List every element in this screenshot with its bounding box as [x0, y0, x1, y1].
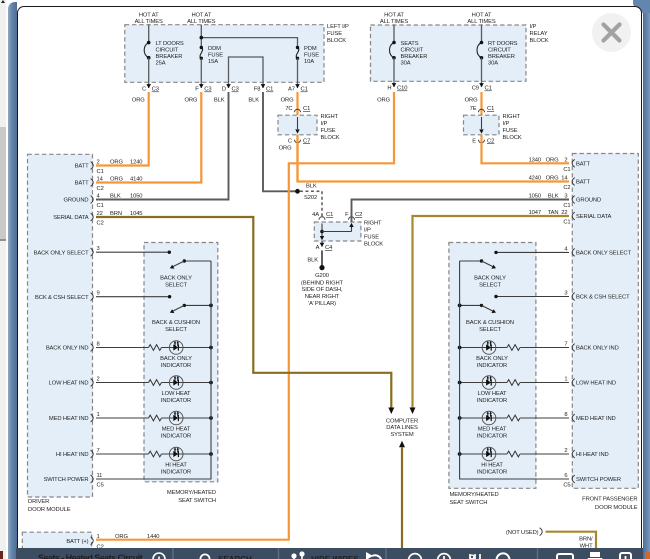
svg-text:SERIAL DATA: SERIAL DATA [53, 215, 89, 221]
svg-text:C1: C1 [326, 212, 333, 218]
svg-text:BACK ONLY: BACK ONLY [476, 356, 508, 362]
svg-text:1: 1 [97, 412, 100, 418]
switch BACK ONLY SELECT (driver) [184, 260, 211, 262]
svg-text:INDICATOR: INDICATOR [477, 470, 507, 476]
svg-text:BLOCK: BLOCK [364, 242, 383, 248]
svg-text:1050: 1050 [529, 194, 541, 200]
svg-text:SEATS: SEATS [401, 41, 419, 47]
svg-text:BATT (+): BATT (+) [66, 539, 88, 545]
svg-text:9: 9 [97, 291, 100, 297]
indicator LOW HEAT INDICATOR (driver) : resistor + LED [96, 382, 149, 384]
svg-text:C1: C1 [563, 220, 570, 226]
switch module: MEMORY/HEATED SEAT SWITCH (passenger) [449, 243, 536, 489]
svg-text:RIGHT: RIGHT [321, 114, 339, 120]
svg-text:HOT AT: HOT AT [191, 12, 211, 18]
wire ORG 1340 to passenger BATT 2 [482, 135, 570, 164]
svg-text:C3: C3 [152, 87, 159, 93]
indicator HI HEAT INDICATOR (passenger) : LED + resistor [460, 453, 507, 455]
connector F8 C1 [262, 82, 264, 88]
ground G200 [319, 265, 324, 270]
svg-text:FUSE: FUSE [208, 52, 223, 58]
svg-text:4240: 4240 [529, 176, 541, 182]
svg-text:RIGHT: RIGHT [364, 221, 382, 227]
svg-text:BATT: BATT [75, 164, 89, 170]
wire: bus to switch power pin 11 [96, 454, 211, 479]
svg-text:C4: C4 [325, 245, 333, 251]
svg-text:SYSTEM: SYSTEM [390, 432, 413, 438]
svg-text:8: 8 [564, 412, 567, 418]
svg-text:MED HEAT: MED HEAT [162, 427, 191, 433]
wire BRN ckt1045: driver SERIAL DATA to computer data lines [96, 217, 391, 408]
svg-text:INDICATOR: INDICATOR [161, 398, 191, 404]
svg-text:MED HEAT IND: MED HEAT IND [576, 416, 616, 422]
svg-text:BLK: BLK [110, 194, 121, 200]
svg-text:CIRCUIT: CIRCUIT [156, 47, 179, 53]
svg-text:C5: C5 [563, 483, 570, 489]
svg-text:I/P: I/P [364, 228, 371, 234]
connector D C3 [228, 82, 230, 88]
svg-text:HI HEAT IND: HI HEAT IND [576, 452, 609, 458]
svg-text:D: D [222, 87, 226, 93]
svg-text:3: 3 [564, 194, 567, 200]
svg-text:FRONT PASSENGER: FRONT PASSENGER [582, 497, 637, 503]
svg-text:Seats - Heated Seats Circuit: Seats - Heated Seats Circuit [38, 553, 143, 559]
svg-text:C2: C2 [97, 221, 104, 227]
svg-text:SELECT: SELECT [479, 282, 501, 288]
svg-text:C2: C2 [97, 186, 104, 192]
internal bus wire (driver switch) [210, 261, 212, 454]
svg-text:BLOCK: BLOCK [530, 38, 549, 44]
svg-text:FUSE: FUSE [327, 31, 342, 37]
svg-text:FUSE: FUSE [321, 128, 336, 134]
svg-text:PDM: PDM [304, 46, 317, 52]
svg-text:ALL TIMES: ALL TIMES [467, 19, 495, 25]
svg-text:7C: 7C [285, 106, 292, 112]
junction box: RIGHT I/P FUSE BLOCK (pass-through C1-C2) [464, 115, 500, 135]
svg-text:BLK: BLK [248, 97, 259, 103]
wire: pin 3 to back only select contact [96, 251, 169, 253]
switch BACK &amp; CUSHION SELECT (driver) [184, 304, 211, 306]
svg-text:ORG: ORG [281, 97, 294, 103]
svg-text:INDICATOR: INDICATOR [161, 434, 191, 440]
svg-text:4140: 4140 [130, 177, 142, 183]
svg-text:INDICATOR: INDICATOR [161, 470, 191, 476]
module: FRONT PASSENGER DOOR MODULE [572, 154, 638, 489]
svg-text:2: 2 [97, 377, 100, 383]
svg-text:11: 11 [97, 473, 103, 479]
wire: pin 3 to back &amp; cushion select contact [496, 296, 569, 298]
svg-text:ORG: ORG [377, 97, 390, 103]
svg-text:BATT: BATT [75, 181, 89, 187]
svg-text:DDM: DDM [208, 46, 221, 52]
circuit breaker RT DOORS CIRCUIT BREAKER 30A [481, 25, 483, 43]
svg-text:25A: 25A [156, 60, 166, 66]
svg-text:DATA LINES: DATA LINES [386, 425, 418, 431]
svg-text:SIDE OF DASH,: SIDE OF DASH, [302, 287, 343, 293]
svg-text:30A: 30A [488, 60, 498, 66]
svg-text:‘A’ PILLAR): ‘A’ PILLAR) [308, 301, 336, 307]
svg-text:C1: C1 [563, 167, 570, 173]
svg-text:BCK & CSH SELECT: BCK & CSH SELECT [35, 295, 89, 301]
svg-text:LOW HEAT IND: LOW HEAT IND [49, 381, 89, 387]
svg-text:HOT AT: HOT AT [472, 12, 492, 18]
svg-text:10A: 10A [304, 59, 314, 65]
svg-text:FUSE: FUSE [364, 235, 379, 241]
svg-text:C1: C1 [487, 106, 494, 112]
wire: bus to switch power pin 6 [460, 454, 569, 479]
svg-text:SERIAL DATA: SERIAL DATA [576, 214, 612, 220]
svg-text:F8: F8 [254, 87, 261, 93]
wire: pin 9 to back &amp; cushion select contact [96, 296, 170, 298]
connector H C10 [393, 81, 395, 87]
svg-text:BRN/: BRN/ [579, 537, 593, 543]
svg-text:RT DOORS: RT DOORS [488, 41, 518, 47]
svg-text:I/P: I/P [530, 24, 537, 30]
svg-text:SWITCH POWER: SWITCH POWER [576, 477, 621, 483]
svg-text:HI HEAT IND: HI HEAT IND [56, 452, 89, 458]
connector A7 C1 [297, 82, 299, 88]
svg-text:ALL TIMES: ALL TIMES [380, 19, 408, 25]
svg-text:F: F [345, 212, 349, 218]
svg-text:ORG: ORG [465, 97, 478, 103]
svg-text:15A: 15A [208, 59, 218, 65]
svg-text:FUSE: FUSE [304, 52, 319, 58]
svg-text:3: 3 [564, 291, 567, 297]
svg-text:F: F [195, 87, 199, 93]
svg-text:14: 14 [97, 177, 104, 183]
svg-text:BACK ONLY SELECT: BACK ONLY SELECT [34, 250, 89, 256]
svg-text:8: 8 [97, 342, 100, 348]
svg-text:SEARCH: SEARCH [218, 555, 252, 559]
svg-text:HOT AT: HOT AT [139, 12, 159, 18]
relay block: I/P RELAY BLOCK [371, 25, 527, 81]
svg-text:1240: 1240 [130, 160, 142, 166]
svg-text:C5: C5 [97, 483, 104, 489]
svg-text:C3: C3 [204, 87, 211, 93]
connector C C3 (left fuse block) [148, 82, 150, 88]
svg-text:ORG: ORG [115, 534, 128, 540]
svg-text:H: H [387, 86, 391, 92]
wire BLK dashed: S202 to 4A C1 of right I/P fuse block [300, 191, 322, 217]
svg-text:BACK ONLY: BACK ONLY [474, 275, 506, 281]
module: DRIVER DOOR MODULE [28, 154, 93, 497]
svg-text:ORG: ORG [110, 160, 123, 166]
svg-text:C1: C1 [485, 86, 492, 92]
svg-text:1340: 1340 [529, 157, 541, 163]
connector C9 C1 [481, 81, 483, 87]
svg-text:BLK: BLK [306, 184, 317, 190]
indicator MED HEAT INDICATOR (passenger) : LED + resistor [460, 417, 507, 419]
switch module: MEMORY/HEATED SEAT SWITCH (driver) [144, 243, 218, 482]
svg-text:BACK ONLY SELECT: BACK ONLY SELECT [576, 251, 631, 257]
svg-text:4A: 4A [312, 212, 319, 218]
svg-text:I/P: I/P [321, 121, 328, 127]
svg-text:RIGHT: RIGHT [503, 114, 521, 120]
svg-text:MED HEAT IND: MED HEAT IND [49, 416, 89, 422]
svg-text:LT DOORS: LT DOORS [156, 41, 184, 47]
svg-text:SELECT: SELECT [165, 282, 187, 288]
svg-text:ORG: ORG [279, 145, 292, 151]
svg-text:30A: 30A [401, 60, 411, 66]
connector A C4 below box [321, 241, 323, 247]
svg-text:ALL TIMES: ALL TIMES [135, 19, 163, 25]
svg-text:ALL TIMES: ALL TIMES [187, 19, 215, 25]
svg-text:1: 1 [564, 377, 567, 383]
connector F C3 [200, 82, 202, 88]
svg-text:LEFT I/P: LEFT I/P [327, 24, 349, 30]
svg-text:MED HEAT: MED HEAT [478, 427, 507, 433]
svg-text:C1: C1 [266, 87, 273, 93]
circuit breaker LT DOORS CIRCUIT BREAKER 25A [148, 25, 150, 43]
svg-text:BLK: BLK [548, 194, 559, 200]
svg-text:LOW HEAT IND: LOW HEAT IND [576, 381, 616, 387]
svg-text:INDICATOR: INDICATOR [477, 434, 507, 440]
svg-text:BCK & CSH SELECT: BCK & CSH SELECT [576, 295, 630, 301]
svg-text:BACK & CUSHION: BACK & CUSHION [152, 320, 200, 326]
indicator BACK ONLY INDICATOR (passenger) : LED + resistor [460, 347, 507, 349]
fuse PDM FUSE 10A [296, 48, 299, 59]
svg-text:2: 2 [97, 160, 100, 166]
indicator LOW HEAT INDICATOR (passenger) : LED + resistor [460, 382, 507, 384]
svg-text:C7: C7 [303, 138, 310, 144]
svg-text:I/P: I/P [503, 121, 510, 127]
fuse DDM FUSE 15A [200, 48, 203, 59]
svg-text:C10: C10 [397, 86, 407, 92]
svg-text:ORG: ORG [184, 97, 197, 103]
svg-text:BACK & CUSHION: BACK & CUSHION [466, 320, 514, 326]
svg-text:SEAT SWITCH: SEAT SWITCH [178, 498, 216, 504]
svg-text:BATT: BATT [576, 162, 590, 168]
svg-text:INDICATOR: INDICATOR [477, 398, 507, 404]
svg-text:BACK ONLY: BACK ONLY [160, 275, 192, 281]
svg-text:C1: C1 [301, 87, 308, 93]
svg-text:C1: C1 [97, 169, 104, 175]
svg-text:1050: 1050 [130, 194, 142, 200]
svg-text:3: 3 [97, 246, 100, 252]
svg-text:HOT AT: HOT AT [384, 12, 404, 18]
circuit breaker SEATS CIRCUIT BREAKER 30A [393, 25, 395, 43]
svg-text:C1: C1 [563, 203, 570, 209]
svg-text:G200: G200 [315, 273, 329, 279]
svg-text:FUSE: FUSE [503, 128, 518, 134]
splice S202 [295, 189, 300, 194]
svg-text:ORG: ORG [546, 176, 559, 182]
svg-text:DOOR MODULE: DOOR MODULE [595, 505, 638, 511]
svg-text:SWITCH POWER: SWITCH POWER [44, 477, 89, 483]
wire BLK ckt1050: F C2 up to passenger GROUND pin 3 [352, 200, 570, 223]
svg-text:7E: 7E [470, 106, 477, 112]
switch BACK &amp; CUSHION SELECT (passenger) [460, 304, 482, 306]
fuse block: LEFT I/P FUSE BLOCK [125, 25, 324, 83]
svg-text:BATT: BATT [576, 180, 590, 186]
svg-text:A: A [316, 245, 320, 251]
svg-text:C1: C1 [303, 106, 310, 112]
svg-text:SELECT: SELECT [165, 327, 187, 333]
wire: feed bus to DDM and PDM fuses [200, 25, 202, 48]
svg-text:BLOCK: BLOCK [327, 38, 346, 44]
svg-text:4: 4 [564, 246, 568, 252]
svg-text:MEMORY/HEATED: MEMORY/HEATED [450, 492, 499, 498]
svg-text:BACK ONLY IND: BACK ONLY IND [576, 346, 619, 352]
wire: D-F8 ground jumper inside fuse block [229, 57, 264, 82]
svg-text:2: 2 [564, 157, 567, 163]
junction box: RIGHT I/P FUSE BLOCK (pass-through C1-C7) [278, 115, 317, 135]
svg-text:E: E [472, 138, 476, 144]
indicator HI HEAT INDICATOR (driver) : resistor + LED [96, 453, 149, 455]
svg-text:7: 7 [564, 342, 567, 348]
svg-text:BREAKER: BREAKER [156, 54, 183, 60]
svg-text:C: C [288, 138, 292, 144]
svg-text:CIRCUIT: CIRCUIT [401, 47, 424, 53]
svg-text:MEMORY/HEATED: MEMORY/HEATED [167, 490, 216, 496]
svg-text:SEAT SWITCH: SEAT SWITCH [450, 500, 488, 506]
wire TAN ckt1047: passenger SERIAL DATA to computer data lines [413, 216, 570, 408]
svg-text:ORG: ORG [546, 157, 559, 163]
svg-text:A7: A7 [288, 87, 295, 93]
svg-text:2: 2 [564, 448, 567, 454]
svg-text:ORG: ORG [110, 177, 123, 183]
svg-text:C: C [142, 87, 146, 93]
svg-text:BLK: BLK [307, 257, 318, 263]
svg-text:INDICATOR: INDICATOR [477, 363, 507, 369]
wire ORG continues to passenger BATT 14 row [298, 135, 570, 182]
svg-text:HI HEAT: HI HEAT [481, 463, 503, 469]
module: heated seat module (bottom, partially hidden) [22, 532, 91, 558]
svg-text:C2: C2 [487, 138, 494, 144]
svg-text:BLOCK: BLOCK [321, 135, 340, 141]
svg-text:BACK ONLY: BACK ONLY [160, 356, 192, 362]
svg-text:DOOR MODULE: DOOR MODULE [28, 507, 71, 513]
internal bus wire (passenger switch) [459, 261, 461, 454]
indicator BACK ONLY INDICATOR (driver) : resistor + LED [96, 347, 149, 349]
svg-text:LOW HEAT: LOW HEAT [162, 391, 191, 397]
svg-text:C2: C2 [355, 212, 362, 218]
svg-text:14: 14 [561, 176, 568, 182]
svg-text:C1: C1 [97, 203, 104, 209]
svg-text:S202: S202 [304, 195, 317, 201]
svg-text:C2: C2 [563, 185, 570, 191]
svg-text:BLK: BLK [214, 97, 225, 103]
svg-text:CIRCUIT: CIRCUIT [488, 47, 511, 53]
wire BRN: computer data lines system down (off page) [399, 441, 405, 448]
svg-text:BREAKER: BREAKER [401, 54, 428, 60]
svg-text:C9: C9 [472, 86, 479, 92]
svg-text:NEAR RIGHT: NEAR RIGHT [305, 294, 340, 300]
svg-text:INDICATOR: INDICATOR [161, 363, 191, 369]
svg-text:GROUND: GROUND [63, 198, 88, 204]
svg-text:LOW HEAT: LOW HEAT [478, 391, 507, 397]
svg-text:6: 6 [564, 473, 567, 479]
svg-text:ORG: ORG [132, 97, 145, 103]
svg-text:COMPUTER: COMPUTER [386, 418, 418, 424]
svg-text:7: 7 [97, 448, 100, 454]
svg-text:GROUND: GROUND [576, 198, 601, 204]
svg-text:SELECT: SELECT [479, 327, 501, 333]
svg-text:BACK ONLY IND: BACK ONLY IND [46, 346, 89, 352]
indicator MED HEAT INDICATOR (driver) : resistor + LED [96, 417, 149, 419]
wire: pin 4 to back only select contact [496, 251, 569, 253]
svg-text:C3: C3 [232, 87, 239, 93]
svg-text:(NOT USED): (NOT USED) [506, 530, 539, 536]
svg-text:1: 1 [97, 534, 100, 540]
svg-text:1440: 1440 [147, 534, 159, 540]
junction box: RIGHT I/P FUSE BLOCK (ground distribution) [314, 222, 361, 241]
svg-text:BREAKER: BREAKER [488, 54, 515, 60]
svg-text:HI HEAT: HI HEAT [165, 463, 187, 469]
svg-text:DRIVER: DRIVER [28, 499, 49, 505]
svg-text:RELAY: RELAY [530, 31, 548, 37]
svg-text:BLOCK: BLOCK [503, 135, 522, 141]
switch BACK ONLY SELECT (passenger) [460, 260, 482, 262]
svg-text:(BEHIND RIGHT: (BEHIND RIGHT [301, 280, 343, 286]
svg-text:HIDE WIRES: HIDE WIRES [311, 555, 359, 559]
